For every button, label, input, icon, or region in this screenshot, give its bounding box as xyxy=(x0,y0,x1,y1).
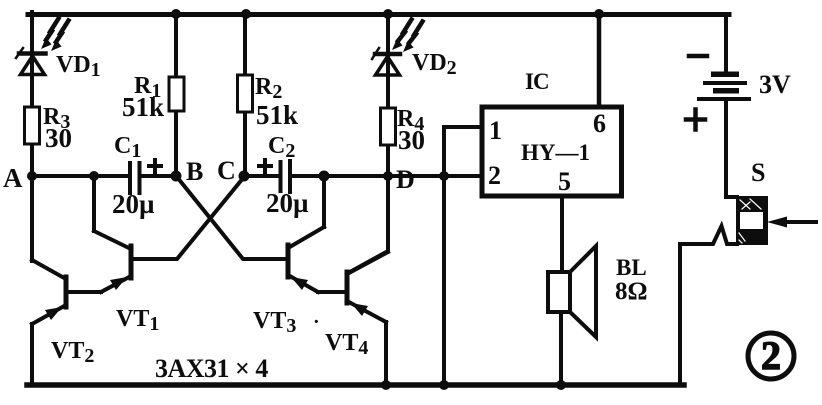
svg-text:20µ: 20µ xyxy=(112,189,155,219)
svg-text:3AX31 × 4: 3AX31 × 4 xyxy=(155,354,268,383)
svg-text:C2: C2 xyxy=(268,133,295,162)
photodiode VD1 xyxy=(16,19,69,75)
node C xyxy=(239,171,250,182)
photodiode VD2 xyxy=(372,20,423,76)
battery minus sign xyxy=(689,54,707,59)
node top rail R1 xyxy=(171,9,181,19)
svg-text:B: B xyxy=(186,157,203,186)
node IC pins 1-2 xyxy=(439,171,449,181)
transistor VT4 xyxy=(347,252,388,384)
svg-text:VD1: VD1 xyxy=(56,52,101,81)
battery 3V plates xyxy=(697,72,751,102)
wire IC pin 5 to speaker xyxy=(560,198,564,272)
switch pointer arrow xyxy=(767,217,816,228)
svg-text:51k: 51k xyxy=(122,92,164,122)
svg-text:VT4: VT4 xyxy=(325,330,368,359)
svg-text:S: S xyxy=(751,158,765,187)
wire node D down to VT4 collector xyxy=(348,176,388,273)
svg-text:8Ω: 8Ω xyxy=(615,278,648,305)
svg-text:IC: IC xyxy=(525,69,549,94)
svg-text:30: 30 xyxy=(398,125,425,155)
wire cross-coupling C to VT1 base xyxy=(131,177,244,259)
wire switch to bottom rail with kink xyxy=(680,226,737,384)
resistor R3 xyxy=(25,107,40,144)
node bottom rail VT4 xyxy=(381,380,391,390)
capacitor C1 xyxy=(130,160,161,193)
svg-text:C: C xyxy=(217,156,236,185)
wire pins 1-2 node down to bottom rail xyxy=(442,176,446,385)
svg-text:HY—1: HY—1 xyxy=(521,140,590,165)
svg-text:VD2: VD2 xyxy=(412,50,457,79)
node bottom rail speaker xyxy=(556,380,566,390)
node junction VT3 collector xyxy=(319,171,330,182)
wire pin1 jog xyxy=(444,127,482,176)
node top rail R2 xyxy=(241,9,251,19)
node D xyxy=(383,171,393,181)
wire R2 branch vertical xyxy=(243,14,247,176)
wire horizontal A to C1 xyxy=(32,174,128,178)
IC HY-1 box xyxy=(482,107,622,196)
wire cross-coupling B to VT3 base xyxy=(177,177,288,259)
node top rail IC pin 6 xyxy=(594,9,604,19)
wire top rail xyxy=(28,12,729,17)
wire node C to C2 xyxy=(244,174,279,178)
svg-text:A: A xyxy=(3,163,23,193)
wire C1 to node B xyxy=(141,174,176,178)
svg-text:1: 1 xyxy=(489,116,502,145)
svg-text:5: 5 xyxy=(558,167,571,196)
svg-text:51k: 51k xyxy=(256,100,298,130)
svg-text:R2: R2 xyxy=(255,74,282,103)
node B xyxy=(171,171,182,182)
svg-text:2: 2 xyxy=(488,161,501,190)
resistor R1 xyxy=(169,77,184,111)
transistor VT2 xyxy=(32,260,66,384)
svg-text:6: 6 xyxy=(593,109,606,138)
svg-text:C1: C1 xyxy=(114,133,141,162)
svg-text:VT3: VT3 xyxy=(253,308,296,337)
wire IC pin 6 vertical xyxy=(597,14,602,107)
wire battery branch xyxy=(724,14,728,72)
svg-text:30: 30 xyxy=(45,123,72,153)
wire VD2/R4 branch vertical xyxy=(386,14,390,176)
svg-text:3V: 3V xyxy=(759,70,791,99)
figure number circled 2 xyxy=(748,333,794,379)
svg-text:BL: BL xyxy=(616,255,647,280)
svg-text:VT2: VT2 xyxy=(51,338,94,367)
speaker BL xyxy=(548,246,596,337)
battery plus sign xyxy=(686,110,705,130)
svg-text:2: 2 xyxy=(761,333,781,378)
svg-text:VT1: VT1 xyxy=(116,306,159,335)
wire R1 branch vertical xyxy=(174,14,178,176)
wire speaker to bottom rail xyxy=(559,312,563,384)
node A xyxy=(27,171,37,181)
svg-text:20µ: 20µ xyxy=(266,188,309,218)
transistor VT3 xyxy=(288,176,347,292)
switch S xyxy=(736,196,768,245)
svg-text:D: D xyxy=(396,165,415,194)
capacitor C2 xyxy=(259,160,290,192)
node junction VT1 collector xyxy=(89,171,99,181)
svg-text:·: · xyxy=(313,311,320,333)
wire C2 to node D to IC pin 2 xyxy=(291,174,479,178)
resistor R2 xyxy=(238,75,253,112)
wire bottom rail xyxy=(27,382,684,388)
node bottom rail IC xyxy=(439,380,449,390)
resistor R4 xyxy=(381,108,396,145)
node top rail VD2 xyxy=(383,9,393,19)
wire left vertical (top rail to VT2 collector) xyxy=(30,12,34,261)
transistor VT1 xyxy=(66,176,131,292)
